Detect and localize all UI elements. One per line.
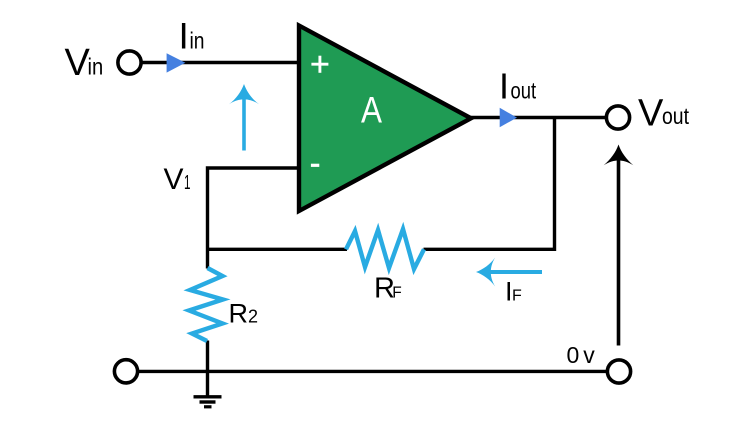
- wire R2 bottom stub to ground: [206, 341, 209, 396]
- svg-text:0v: 0v: [567, 342, 599, 368]
- current arrow IF (cyan left arrow on feedback wire): [476, 258, 542, 287]
- label Vout: [638, 93, 690, 135]
- output voltage arrow (black up arrow at Vout): [604, 145, 634, 346]
- current arrow into inverting node (cyan up arrow): [229, 84, 259, 151]
- op-amp inverting input marker -: [311, 164, 319, 167]
- svg-text:V: V: [164, 163, 184, 196]
- svg-text:R: R: [229, 299, 249, 329]
- wire input Vin to + input: [141, 61, 301, 64]
- label Vin: [65, 42, 104, 84]
- label R2: [229, 299, 259, 329]
- op-amp A body: [299, 26, 471, 212]
- label RF: [374, 273, 402, 305]
- resistor R2 (cyan zigzag): [189, 268, 223, 341]
- resistor RF (cyan zigzag): [346, 229, 424, 269]
- label V1: [164, 163, 191, 196]
- wire feedback vertical (output tap down to feedback): [553, 118, 556, 252]
- wire inverting input: op-amp - pin left then down to R2 top: [208, 168, 302, 269]
- svg-text:in: in: [190, 28, 205, 54]
- current arrow Iout (blue arrowhead on output wire): [500, 108, 517, 127]
- svg-text:in: in: [88, 54, 104, 80]
- svg-text:F: F: [512, 288, 522, 305]
- terminal 0V right: [607, 360, 630, 383]
- svg-text:out: out: [662, 103, 690, 129]
- current arrow Iin (blue arrowhead on input wire): [167, 53, 186, 72]
- wire feedback left segment (V1 node to RF): [208, 248, 348, 251]
- wire output (op-amp apex to Vout terminal): [468, 116, 606, 119]
- svg-text:I: I: [179, 16, 189, 57]
- terminal 0V left: [114, 360, 137, 383]
- wire feedback right segment (RF to corner): [424, 248, 555, 251]
- svg-text:1: 1: [184, 172, 191, 194]
- ground: [194, 397, 222, 407]
- terminal Vin: [118, 51, 141, 74]
- label IF: [505, 277, 522, 307]
- wire 0V rail: [138, 370, 607, 373]
- svg-text:A: A: [361, 90, 382, 131]
- svg-text:I: I: [499, 66, 509, 107]
- svg-text:2: 2: [248, 307, 258, 327]
- label Iout: [499, 66, 537, 107]
- svg-text:V: V: [638, 93, 664, 135]
- op-amp non-inverting input marker +: [311, 56, 328, 73]
- label Iin: [179, 16, 205, 57]
- svg-text:out: out: [511, 78, 537, 104]
- svg-text:F: F: [392, 285, 401, 302]
- terminal Vout: [606, 106, 629, 129]
